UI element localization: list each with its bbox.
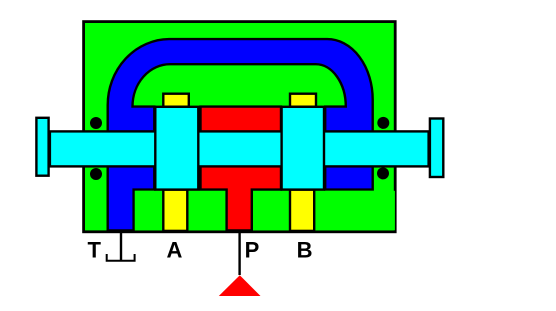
spool rod (cyan horizontal bar) (50, 131, 429, 166)
svg-text:B: B (297, 237, 313, 262)
pressure source triangle (219, 275, 261, 296)
svg-text:P: P (245, 237, 260, 262)
tank passage T (blue inverted-U channel with left drain column) (108, 39, 373, 230)
pressure passage P (red T-shape) (201, 107, 282, 231)
port B (yellow column) (290, 190, 314, 231)
left spool land (155, 107, 198, 190)
seal dot top-left (90, 117, 102, 129)
valve body (green) (84, 22, 396, 232)
seal dot bottom-right (377, 167, 389, 179)
left end cap (36, 118, 48, 176)
seal dot bottom-left (90, 168, 102, 180)
svg-text:T: T (87, 237, 101, 262)
bottom port row base (green) (135, 191, 395, 231)
right spool land (282, 107, 324, 190)
T port line (120, 231, 122, 261)
seal dot top-right (377, 117, 389, 129)
left land yellow cap (163, 94, 189, 107)
right land yellow cap (290, 94, 316, 107)
tank drain symbol (107, 254, 135, 261)
P port line (238, 231, 240, 275)
port A (yellow column) (163, 190, 187, 231)
right end cap (430, 119, 443, 178)
svg-text:A: A (166, 237, 182, 262)
